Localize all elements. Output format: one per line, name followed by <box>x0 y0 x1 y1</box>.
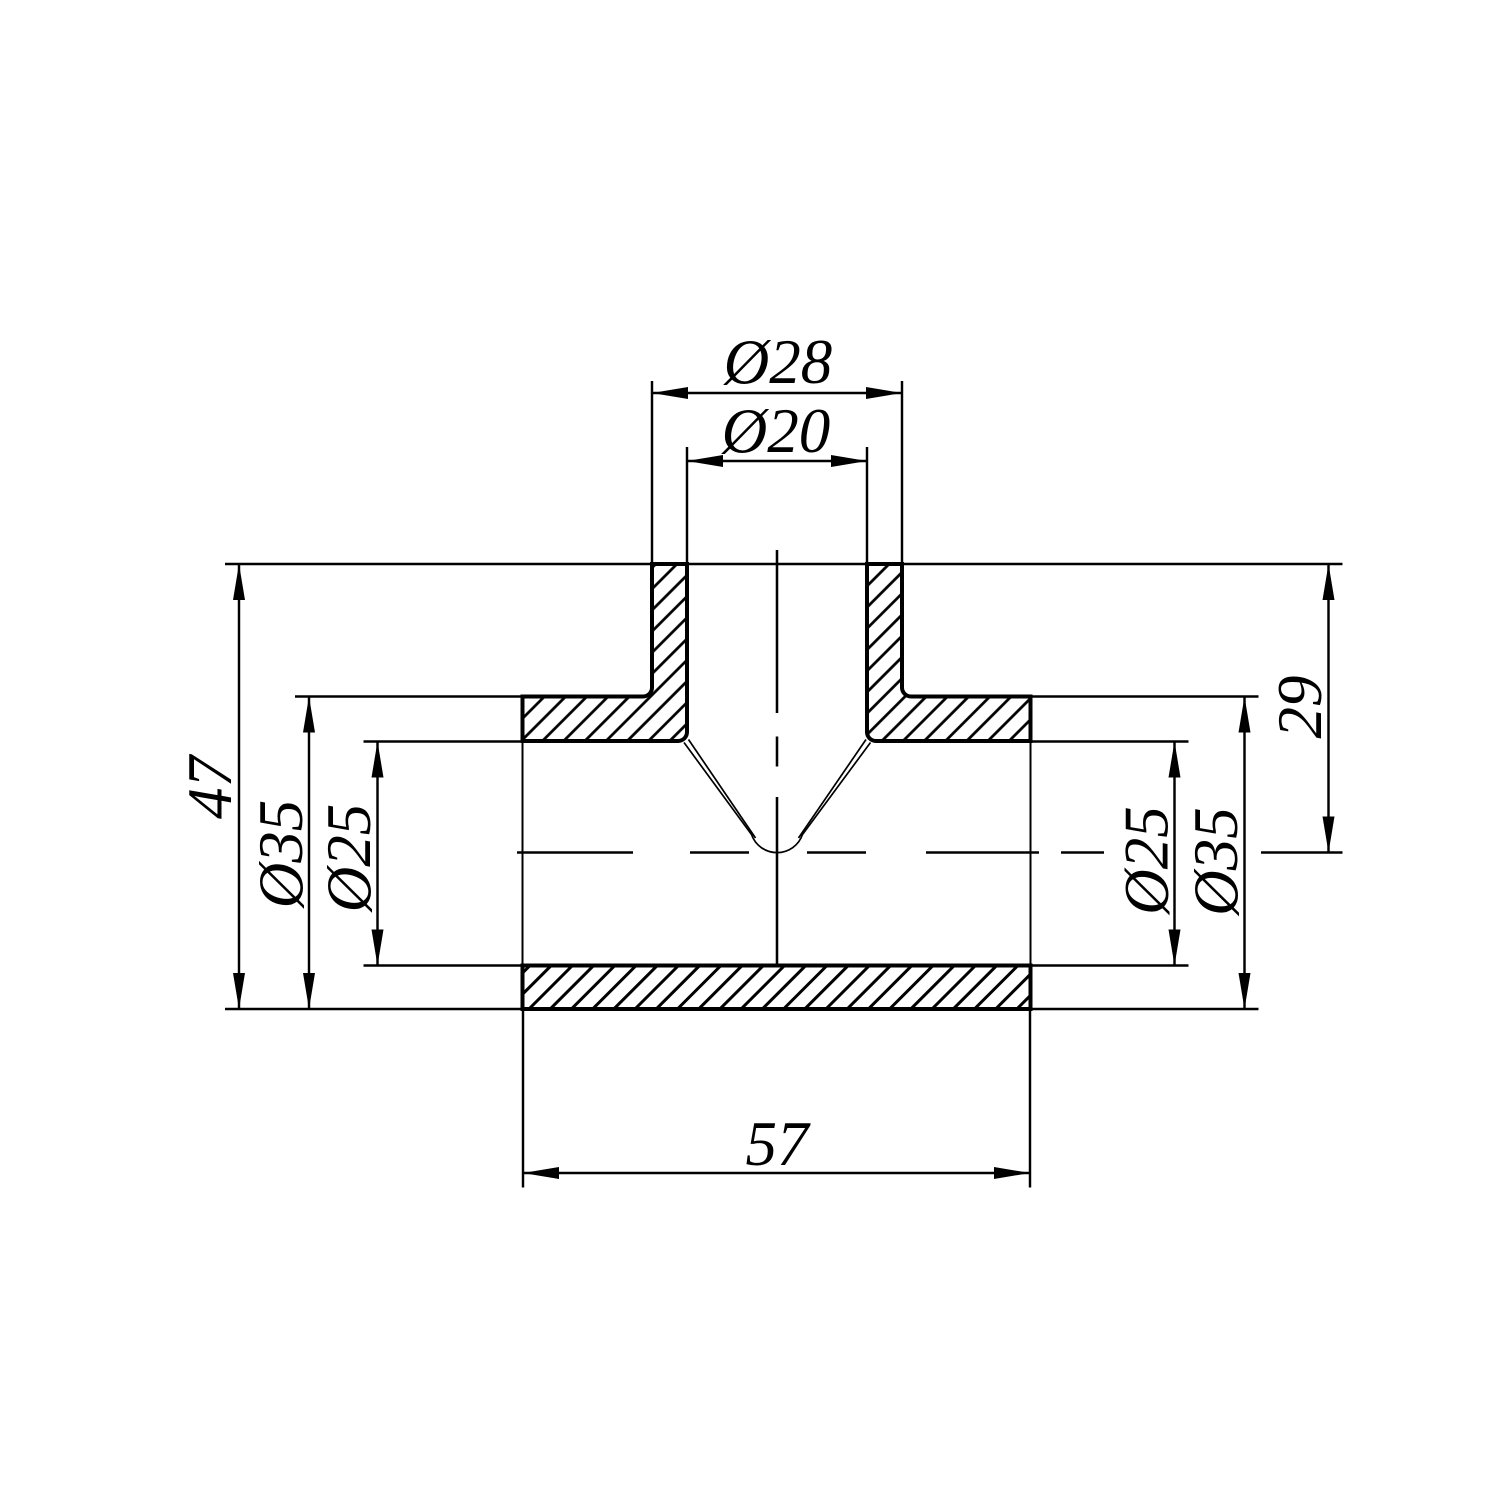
dim O25 right line <box>1173 742 1175 966</box>
branch bore cone (V funnel) outline with rounded tip <box>684 743 871 853</box>
vertical centerline <box>776 550 779 964</box>
body bottom extension left <box>225 1008 523 1010</box>
dim O28 line <box>652 392 902 394</box>
47 arrows <box>233 564 245 600</box>
dimension lines <box>239 393 1329 1173</box>
svg-text:Ø25: Ø25 <box>1112 806 1182 916</box>
bore bottom extension left <box>364 964 523 966</box>
O25 right arrows <box>1169 742 1181 778</box>
O28 extension left <box>651 381 653 564</box>
branch bore cone (V funnel) right inner edge <box>799 740 867 839</box>
57 arrows <box>523 1167 559 1179</box>
dim 57 line <box>523 1172 1030 1174</box>
dim O25 left line <box>376 742 378 966</box>
arrowheads <box>233 387 1335 1179</box>
horizontal centerline <box>517 851 1104 854</box>
svg-text:Ø20: Ø20 <box>721 396 831 466</box>
bore top extension left <box>364 740 523 742</box>
O28 arrows <box>652 387 688 399</box>
flange top extension left <box>295 695 523 697</box>
flange top extension right <box>1031 695 1259 697</box>
tee body bottom wall (hatched) <box>523 966 1031 1010</box>
top shared extension line y=564 <box>225 563 1343 565</box>
centerline stub right for dim 29 <box>1261 851 1343 853</box>
O20 extension right <box>866 447 868 564</box>
O20 arrows <box>687 455 723 467</box>
dim 47 line <box>238 564 240 1009</box>
body bottom extension right <box>1031 1008 1259 1010</box>
extension lines <box>225 381 1343 1188</box>
O35 left arrows <box>303 697 315 733</box>
tee body right L-section (hatched wall + flange) <box>867 564 1031 741</box>
29 arrows <box>1323 564 1335 600</box>
svg-text:29: 29 <box>1265 676 1335 739</box>
O35 right arrows <box>1239 697 1251 733</box>
svg-text:47: 47 <box>175 754 245 820</box>
dim O35 left line <box>308 697 310 1010</box>
O25 left arrows <box>372 742 384 778</box>
svg-text:Ø35: Ø35 <box>1181 807 1251 917</box>
dim O35 right line <box>1243 697 1245 1010</box>
svg-text:Ø28: Ø28 <box>723 327 833 397</box>
bore top extension right <box>1031 740 1189 742</box>
tee body left L-section (hatched wall + flange) <box>523 564 688 741</box>
O20 extension left <box>686 447 688 564</box>
57 extension left <box>522 1009 524 1188</box>
dim O20 line <box>687 460 867 462</box>
branch bore cone (V funnel) left inner edge <box>689 740 756 839</box>
right end face line <box>1030 741 1032 966</box>
left end face line <box>522 741 524 966</box>
bore bottom extension right <box>1031 964 1189 966</box>
svg-text:Ø25: Ø25 <box>314 804 384 914</box>
svg-text:57: 57 <box>746 1109 812 1179</box>
dim 29 line <box>1327 564 1329 853</box>
57 extension right <box>1029 1009 1031 1188</box>
dimension texts <box>175 327 1335 1179</box>
O28 extension right <box>901 381 903 564</box>
svg-text:Ø35: Ø35 <box>246 800 316 910</box>
